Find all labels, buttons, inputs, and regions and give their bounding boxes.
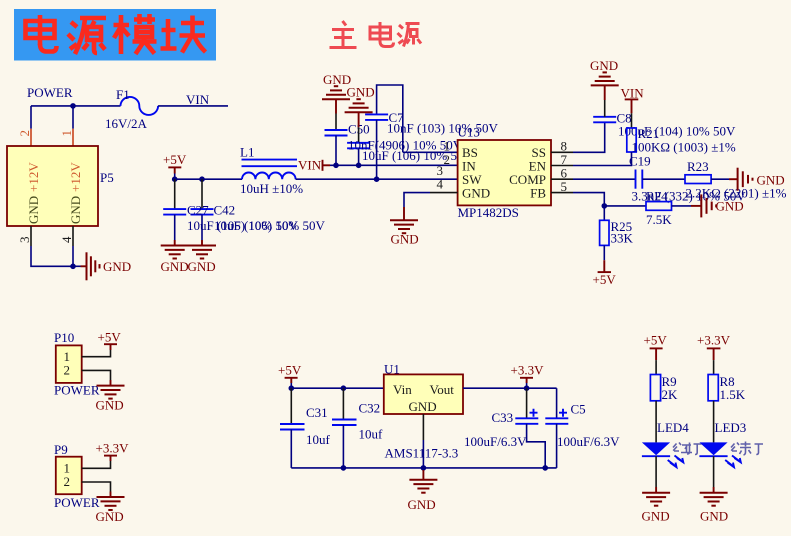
svg-text:+5V: +5V [163,152,187,167]
wire COMP row [551,178,573,180]
wire R24 to ground [672,205,692,207]
svg-text:POWER: POWER [27,85,73,100]
power port +5V (LED4) [644,333,668,361]
power port +5V (buck input) [163,152,187,179]
svg-text:MP1482DS: MP1482DS [458,205,519,220]
svg-text:+3.3V: +3.3V [697,333,731,348]
LED LED4 [642,442,683,467]
svg-text:GND: GND [103,259,131,274]
svg-text:+5V: +5V [98,330,122,345]
svg-text:2: 2 [17,130,32,137]
svg-text:7.5K: 7.5K [646,212,672,227]
svg-text:100uF/6.3V: 100uF/6.3V [557,434,620,449]
svg-text:POWER: POWER [54,383,100,398]
svg-text:GND: GND [188,259,216,274]
power port +5V (feedback) [593,272,617,287]
power port +3.3V (LED3) [697,333,731,361]
svg-text:Vout: Vout [430,382,455,397]
svg-text:Vin: Vin [393,382,412,397]
capacitor C7 (bootstrap) [365,85,403,179]
inductor L1 [240,145,303,197]
svg-text:3: 3 [17,237,32,244]
svg-text:FB: FB [530,185,546,200]
wire P10 pin1 [82,350,111,357]
junction on POWER row [70,103,76,109]
wire to P5 ground [73,265,81,267]
power port +3.3V (P9) [96,441,130,462]
ground LED4 [642,493,670,506]
wire R25 to +5V [603,245,605,260]
wire P5 pin2 riser [30,106,32,129]
capacitor C31 [280,388,305,468]
svg-text:GND: GND [700,509,728,524]
wire U1 GND pin down [422,414,424,440]
svg-text:C27: C27 [187,203,209,218]
subtitle 主电源 [330,21,422,48]
svg-text:P10: P10 [54,330,74,345]
connector P5 [7,146,98,226]
wire P10 pin2 [82,370,111,380]
svg-text:2K: 2K [662,387,679,402]
svg-text:+5V: +5V [644,333,668,348]
svg-text:+3.3V: +3.3V [96,441,130,456]
svg-text:16V/2A: 16V/2A [105,116,148,131]
ground P5 (sideways) [87,252,100,280]
capacitor C50 [325,114,348,166]
wire BS row [403,151,458,153]
svg-text:C31: C31 [306,405,328,420]
wire POWER row [31,105,121,107]
svg-text:+5V: +5V [593,272,617,287]
capacitor C33 [515,388,545,468]
wire U1 bottom rail [291,467,556,469]
svg-text:C42: C42 [214,203,236,218]
wire LED4 to ground [655,456,657,487]
capacitor C8 [593,85,616,122]
svg-text:L1: L1 [240,145,254,160]
capacitor C5 [545,388,568,468]
power port VIN (to IN pin) [298,158,330,173]
svg-text:GND: GND [642,509,670,524]
svg-text:F1: F1 [116,87,130,102]
svg-text:1: 1 [59,130,74,137]
svg-text:LED3: LED3 [715,420,747,435]
capacitor C32 [332,388,357,468]
title block 电源模块 [14,9,216,61]
capacitor C19 (series) [636,170,643,189]
svg-text:GND: GND [716,199,744,214]
svg-text:10uf: 10uf [306,432,331,447]
svg-text:2: 2 [444,152,451,167]
svg-text:GND: GND [96,509,124,524]
power port VIN (right) [621,86,645,129]
wire P9 pin2 [82,482,111,492]
svg-text:VIN: VIN [621,86,645,101]
wire U1 input rail [291,387,384,389]
wire P5 pin4 [72,226,74,246]
ground U1 [409,480,437,493]
wire U1 output rail [463,387,557,389]
fuse F1 [121,97,159,115]
wire R8 to LED3 [713,401,715,443]
LED LED3 [699,442,740,467]
svg-text:+12V: +12V [26,162,41,192]
wire LED3 to ground [713,456,715,487]
wire FB row [551,192,573,194]
wire to U1 ground [422,470,424,480]
svg-text:2: 2 [64,363,71,378]
wire SS row to C8 [551,151,573,153]
wire P9 pin1 [82,461,111,468]
svg-text:4: 4 [437,177,444,192]
svg-text:+12V: +12V [68,162,83,192]
resistor R9 [655,360,657,374]
svg-text:2: 2 [64,474,71,489]
ground C42 [188,246,216,259]
ground over C8 [590,58,619,85]
svg-text:5: 5 [561,179,568,194]
svg-text:100uF/6.3V: 100uF/6.3V [464,434,527,449]
ground over C50 [322,72,351,114]
wire EN row [551,165,573,167]
wire SW row [296,178,458,180]
svg-text:GND: GND [462,185,490,200]
svg-text:+3.3V: +3.3V [511,363,545,378]
wire R23 to ground [711,178,729,180]
svg-text:C33: C33 [492,410,514,425]
svg-text:4: 4 [59,236,74,243]
svg-text:GND: GND [68,196,83,224]
svg-text:10uf: 10uf [359,427,384,442]
svg-text:VIN: VIN [186,92,210,107]
capacitor C42 [191,179,214,245]
resistor R23 [685,175,711,184]
label 绿灯 [731,442,763,456]
svg-text:1.5K: 1.5K [720,387,746,402]
svg-text:POWER: POWER [54,495,100,510]
resistor R21 [627,128,636,152]
svg-text:GND: GND [409,399,437,414]
svg-text:VIN: VIN [298,158,322,173]
wire P5 pin1 riser [72,106,74,129]
wire P5 pin3 [30,226,32,246]
ground P10 [97,386,125,399]
svg-text:GND: GND [391,232,419,247]
label 红灯 [673,443,702,455]
wire U13 GND pin to ground [430,192,458,194]
svg-text:+5V: +5V [278,363,302,378]
svg-text:10uF (106) 10% 50V: 10uF (106) 10% 50V [214,218,325,233]
svg-text:C32: C32 [359,401,381,416]
ground U13 [390,220,418,233]
svg-text:10nF (103) 10% 50V: 10nF (103) 10% 50V [387,121,498,136]
resistor R8 [713,360,715,374]
wire VIN top [158,105,228,107]
power port +5V (P10) [98,330,122,351]
svg-text:GND: GND [26,196,41,224]
ground R24 (sideways) [701,194,716,217]
capacitor C49 [347,127,370,165]
svg-text:10uH ±10%: 10uH ±10% [240,181,303,196]
power port +5V (U1) [278,363,302,389]
svg-text:33K: 33K [611,231,634,246]
svg-text:U13: U13 [458,125,480,140]
resistor R25 [603,206,605,220]
ground C27 [161,246,189,259]
svg-text:C5: C5 [571,402,586,417]
svg-text:100KΩ (1003) ±1%: 100KΩ (1003) ±1% [632,140,736,155]
wire R9 to LED4 [655,401,657,443]
capacitor C27 [163,179,186,245]
resistor R24 [646,202,672,211]
svg-text:GND: GND [347,85,375,100]
ground over C49 [345,85,375,128]
op-amp U13 MP1482DS [458,140,551,205]
svg-text:GND: GND [757,173,785,188]
svg-text:C19: C19 [629,154,651,169]
svg-text:GND: GND [161,259,189,274]
power port +3.3V (U1) [511,363,545,389]
wire +5V rail to L1 [175,178,242,180]
svg-text:R23: R23 [687,159,709,174]
svg-text:AMS1117-3.3: AMS1117-3.3 [385,446,459,461]
svg-text:GND: GND [96,398,124,413]
wire FB to R24 [604,205,646,207]
svg-text:P5: P5 [100,170,114,185]
svg-text:GND: GND [590,58,618,73]
svg-text:P9: P9 [54,442,68,457]
ground LED3 [700,493,728,506]
ground P9 [97,497,125,510]
wire VIN row to IN pin [330,164,458,166]
svg-text:LED4: LED4 [657,420,689,435]
ground R23 (sideways) [738,168,753,191]
svg-text:GND: GND [408,497,436,512]
